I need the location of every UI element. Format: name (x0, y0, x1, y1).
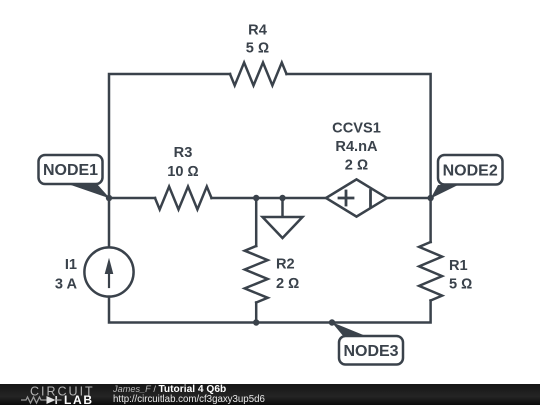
op-amp? no: CCVS1 diamond (326, 179, 387, 216)
svg-text:http://circuitlab.com/cf3gaxy3: http://circuitlab.com/cf3gaxy3up5d6 (113, 394, 265, 405)
svg-text:R3: R3 (174, 145, 193, 161)
resistor R3 (155, 187, 212, 210)
junction node3 (329, 319, 335, 325)
svg-text:CCVS1: CCVS1 (332, 121, 381, 137)
junction node1 (106, 195, 112, 201)
resistor R1 (419, 242, 442, 301)
wire bottom right (256, 301, 430, 323)
wire: R2 bottom lead (255, 303, 258, 323)
resistor R4 (230, 63, 287, 86)
svg-text:10 Ω: 10 Ω (167, 164, 199, 180)
svg-text:R1: R1 (449, 258, 468, 274)
wire middle right: CCVS1 to node2 (387, 197, 431, 200)
wire left: node1 down to I1 (108, 198, 111, 247)
svg-text:R2: R2 (276, 256, 295, 272)
footer logo resistor-diode squiggle (21, 397, 47, 403)
svg-text:NODE2: NODE2 (443, 162, 498, 179)
I1 arrowhead (105, 258, 114, 274)
wire top: node1 corner to R4 (109, 74, 230, 198)
svg-text:I1: I1 (65, 257, 77, 273)
svg-text:NODE3: NODE3 (343, 343, 398, 360)
svg-text:3 A: 3 A (55, 277, 78, 293)
node NODE3 pointer (332, 322, 368, 337)
CCVS1 minus bar (369, 191, 372, 207)
wire top right: R4 to node2 (287, 74, 431, 198)
wire: I1 to bottom (109, 297, 256, 323)
wire middle left: node1 to R3 (109, 197, 155, 200)
junction R2 top (253, 195, 259, 201)
footer bar (0, 384, 540, 405)
svg-text:NODE1: NODE1 (43, 162, 98, 179)
junction ground tap (279, 195, 285, 201)
node NODE2 box (438, 155, 503, 185)
node NODE2 pointer (431, 184, 460, 199)
svg-text:2 Ω: 2 Ω (345, 158, 368, 174)
svg-text:R4: R4 (248, 23, 268, 39)
ground stem (281, 198, 284, 217)
svg-text:LAB: LAB (64, 393, 94, 405)
node NODE1 pointer (55, 182, 110, 199)
node NODE1 box (39, 155, 103, 184)
current source I1 (84, 247, 133, 296)
CCVS1 plus sign (339, 191, 371, 207)
resistor R2 (245, 246, 268, 303)
I1 arrow (108, 270, 110, 287)
svg-text:5 Ω: 5 Ω (246, 41, 269, 57)
junction R2 bottom (253, 319, 259, 325)
junction node2 (427, 195, 433, 201)
wire: node2 down to R1 (429, 198, 432, 242)
wire: R2 top lead (255, 198, 258, 246)
svg-text:5 Ω: 5 Ω (449, 277, 472, 293)
svg-text:R4.nA: R4.nA (335, 139, 378, 155)
ground (263, 217, 303, 238)
node NODE3 box (339, 336, 403, 365)
wire middle: R3 to CCVS1 (212, 197, 327, 200)
svg-text:2 Ω: 2 Ω (276, 276, 299, 292)
